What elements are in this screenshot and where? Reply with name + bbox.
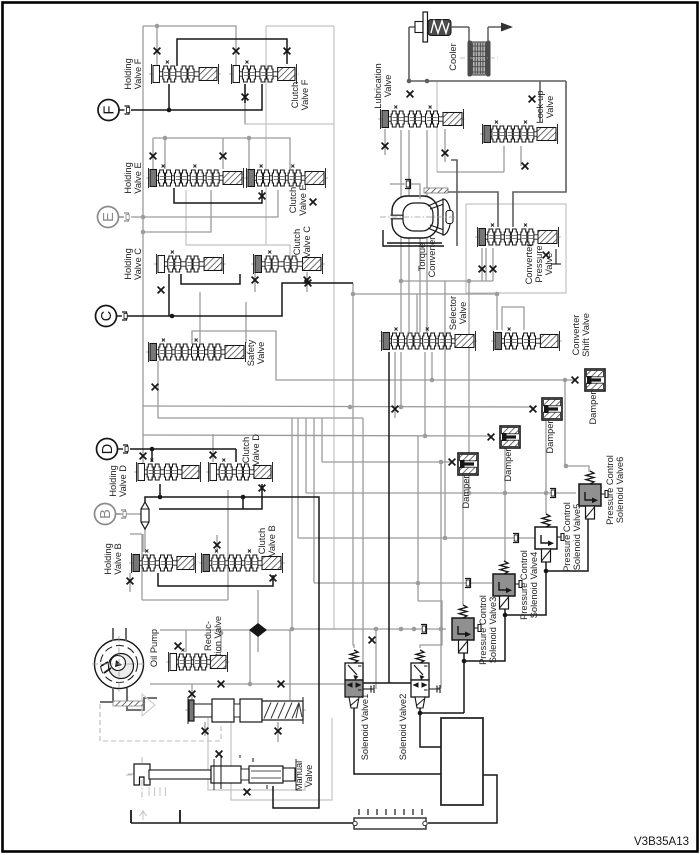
port bracket xyxy=(465,579,471,588)
wire xyxy=(419,704,421,713)
exhaust mark X xyxy=(140,453,147,460)
wire xyxy=(444,281,446,538)
exhaust mark X xyxy=(175,643,182,650)
label Lock-up Valve xyxy=(535,90,555,123)
doc number V3B35A13 xyxy=(634,836,689,848)
svg-text:Valve C: Valve C xyxy=(133,248,143,280)
exhaust mark X xyxy=(127,578,134,585)
wire xyxy=(245,84,334,124)
svg-text:B: B xyxy=(98,509,114,519)
junction xyxy=(544,491,549,496)
damper 2 xyxy=(542,398,562,420)
exhaust mark X xyxy=(522,163,529,170)
wire xyxy=(145,497,319,808)
exhaust mark X xyxy=(392,406,399,413)
exhaust mark X xyxy=(530,406,537,413)
wire xyxy=(502,307,524,330)
wire xyxy=(141,534,143,600)
wire xyxy=(546,516,588,571)
svg-text:Valve C: Valve C xyxy=(302,226,312,258)
wire xyxy=(504,448,506,561)
wire xyxy=(463,661,465,713)
svg-text:Cooler: Cooler xyxy=(448,43,458,70)
exhaust mark X xyxy=(189,691,196,698)
label Pressure Control Solenoid Valve6 xyxy=(605,455,625,525)
orifice diamond xyxy=(249,623,267,637)
torque converter xyxy=(380,188,458,246)
valve: Manual Valve xyxy=(128,755,299,790)
label Reduction Valve xyxy=(203,616,223,656)
wire xyxy=(130,810,132,823)
valve: Lock-up Valve xyxy=(480,121,560,145)
wire xyxy=(181,274,240,284)
suction arrow xyxy=(142,694,155,716)
label Pressure Control Solenoid Valve5 xyxy=(562,502,582,572)
label Pressure Control Solenoid Valve4 xyxy=(519,550,539,620)
exhaust mark X xyxy=(304,277,311,284)
wire xyxy=(440,462,442,629)
exhaust mark X xyxy=(158,287,165,294)
wire xyxy=(265,26,267,245)
svg-text:Clutch: Clutch xyxy=(288,187,298,213)
wire xyxy=(428,775,497,823)
wire xyxy=(468,281,470,493)
wire xyxy=(417,436,419,601)
junction xyxy=(150,447,155,452)
exhaust mark X xyxy=(210,452,217,459)
svg-text:Valve E: Valve E xyxy=(298,184,308,215)
label Lubrication Valve xyxy=(373,63,393,108)
exhaust mark X xyxy=(407,91,414,98)
exhaust mark X xyxy=(284,48,291,55)
wire xyxy=(168,274,170,316)
exhaust mark X xyxy=(244,789,251,796)
wire xyxy=(244,84,246,103)
wire xyxy=(212,434,214,462)
label Damper 2 xyxy=(545,420,555,453)
junction xyxy=(439,460,444,465)
valve: Converter Pressure Valve xyxy=(475,224,561,248)
junction xyxy=(399,405,404,410)
wire xyxy=(185,630,187,652)
svg-text:Oil Pump: Oil Pump xyxy=(149,629,159,667)
valve: Clutch Valve D xyxy=(206,459,275,483)
wire xyxy=(408,27,410,81)
svg-text:Valve E: Valve E xyxy=(133,162,143,193)
exhaust mark X xyxy=(543,252,550,259)
wire xyxy=(131,84,262,110)
wire xyxy=(164,138,166,169)
wire xyxy=(464,608,505,661)
label Clutch Valve E xyxy=(288,184,308,215)
label Damper 3 xyxy=(503,448,513,481)
svg-text:Damper: Damper xyxy=(503,448,513,481)
wire xyxy=(444,129,446,162)
wire xyxy=(424,352,426,436)
wire xyxy=(143,190,211,232)
svg-text:Solenoid Valve6: Solenoid Valve6 xyxy=(615,457,625,524)
exhaust mark X xyxy=(242,94,249,101)
junction xyxy=(351,292,356,297)
valve: Clutch Valve C xyxy=(251,251,325,275)
wire xyxy=(152,138,154,169)
svg-text:Lubrication: Lubrication xyxy=(373,63,383,108)
svg-text:Converter: Converter xyxy=(524,244,534,285)
svg-text:Solenoid Valve3: Solenoid Valve3 xyxy=(488,597,498,664)
wire xyxy=(129,573,131,592)
wire xyxy=(144,526,146,552)
wire xyxy=(322,461,452,463)
svg-text:Holding: Holding xyxy=(123,248,133,280)
junction xyxy=(348,405,353,410)
wire xyxy=(565,380,589,472)
wire xyxy=(292,418,446,629)
label Solenoid Valve1 xyxy=(360,694,370,761)
svg-text:D: D xyxy=(100,444,116,454)
exhaust mark X xyxy=(218,681,225,688)
label Clutch Valve F xyxy=(290,79,310,110)
wire xyxy=(513,81,566,227)
junction xyxy=(155,24,160,29)
svg-text:Manual: Manual xyxy=(294,761,304,792)
wire xyxy=(437,171,504,173)
svg-text:Holding: Holding xyxy=(108,465,118,497)
wire xyxy=(400,352,402,407)
label Converter Shift Valve xyxy=(571,313,591,357)
wire xyxy=(445,192,498,227)
wire xyxy=(227,490,229,600)
exhaust mark X xyxy=(275,728,282,735)
exhaust mark X xyxy=(259,193,266,200)
svg-text:Clutch: Clutch xyxy=(241,437,251,463)
wire xyxy=(208,718,305,790)
exhaust mark X xyxy=(233,48,240,55)
label Selector Valve xyxy=(448,296,468,330)
wire xyxy=(174,188,262,203)
exhaust mark X xyxy=(216,751,223,758)
wire xyxy=(313,418,315,583)
label Holding Valve B xyxy=(103,543,123,575)
exhaust mark X xyxy=(529,96,536,103)
wire xyxy=(333,26,335,629)
wire xyxy=(409,80,566,82)
wire xyxy=(394,352,396,418)
svg-text:Pressure: Pressure xyxy=(534,245,544,282)
junction xyxy=(467,279,472,284)
wire xyxy=(142,599,228,601)
svg-text:E: E xyxy=(101,212,117,222)
svg-text:Reduc-: Reduc- xyxy=(203,621,213,651)
wire xyxy=(127,283,353,316)
exhaust mark X xyxy=(449,459,456,466)
junction xyxy=(219,631,224,636)
wire xyxy=(191,684,193,700)
junction xyxy=(503,491,508,496)
pressure control solenoid valve 4 xyxy=(493,561,522,609)
label Cooler xyxy=(448,43,458,70)
wire xyxy=(235,449,237,462)
damper 4 xyxy=(458,453,478,475)
clevis centerlines xyxy=(126,757,162,800)
wire xyxy=(384,129,386,155)
junction xyxy=(439,627,444,632)
svg-text:Solenoid Valve5: Solenoid Valve5 xyxy=(572,504,582,571)
svg-text:V3B35A13: V3B35A13 xyxy=(634,836,689,848)
exhaust mark X xyxy=(152,384,159,391)
wire xyxy=(143,406,533,407)
junction xyxy=(430,378,435,383)
junction xyxy=(290,627,295,632)
wire xyxy=(199,292,201,343)
valve: Safety Valve xyxy=(146,339,248,363)
wire xyxy=(156,26,158,66)
wire xyxy=(249,630,251,684)
svg-text:Valve F: Valve F xyxy=(300,79,310,110)
wire xyxy=(353,294,497,330)
wire xyxy=(266,25,334,27)
svg-text:Holding: Holding xyxy=(123,162,133,194)
wire xyxy=(503,146,505,172)
junction xyxy=(563,378,568,383)
exhaust mark X xyxy=(252,277,259,284)
exhaust mark X xyxy=(220,153,227,160)
wire xyxy=(363,418,372,689)
label Converter Pressure Valve xyxy=(524,244,554,285)
junction xyxy=(467,491,472,496)
svg-text:Damper: Damper xyxy=(545,420,555,453)
valve: Lubrication Valve xyxy=(378,106,466,130)
wire xyxy=(142,26,144,464)
wire xyxy=(418,601,442,648)
node D xyxy=(97,439,129,460)
wire xyxy=(321,418,323,462)
exhaust mark X xyxy=(369,637,376,644)
label Holding Valve E xyxy=(123,162,143,194)
svg-text:Safety: Safety xyxy=(246,339,256,366)
exhaust mark X xyxy=(154,48,161,55)
valve: Holding Valve B xyxy=(129,550,198,574)
svg-text:Valve: Valve xyxy=(545,96,555,119)
exhaust mark X xyxy=(488,434,495,441)
wire xyxy=(116,513,141,515)
valve: Holding Valve D xyxy=(134,459,203,483)
svg-text:F: F xyxy=(102,105,118,114)
port bracket xyxy=(513,534,519,543)
wire xyxy=(159,484,161,497)
solenoid valve 2 xyxy=(411,650,440,708)
wire xyxy=(411,184,420,199)
junction xyxy=(163,136,168,141)
junction xyxy=(241,495,246,500)
port bracket xyxy=(421,625,427,634)
wire xyxy=(431,352,433,380)
svg-text:Clutch: Clutch xyxy=(290,82,300,108)
wire xyxy=(505,562,546,615)
svg-text:Lock-up: Lock-up xyxy=(535,90,545,123)
svg-text:Valve F: Valve F xyxy=(133,58,143,89)
wire xyxy=(177,39,287,66)
junction xyxy=(374,627,379,632)
svg-text:Clutch: Clutch xyxy=(292,229,302,255)
svg-text:Torque: Torque xyxy=(417,243,427,271)
wire xyxy=(143,435,491,436)
wire xyxy=(142,534,144,552)
wire xyxy=(363,682,412,684)
exhaust mark X xyxy=(278,681,285,688)
wire xyxy=(306,492,576,494)
port bracket xyxy=(550,489,556,498)
wire xyxy=(245,302,247,343)
wire xyxy=(438,629,441,688)
svg-text:Solenoid Valve2: Solenoid Valve2 xyxy=(398,694,408,761)
junction xyxy=(167,108,172,113)
wire xyxy=(375,629,377,689)
damper 3 xyxy=(500,426,520,448)
wire xyxy=(539,81,541,122)
exhaust mark X xyxy=(214,542,221,549)
wire xyxy=(354,708,441,774)
control unit box xyxy=(441,718,483,805)
port bracket xyxy=(405,180,411,189)
svg-text:Holding: Holding xyxy=(103,543,113,575)
wire xyxy=(151,449,153,462)
wire xyxy=(153,138,290,169)
cp valve spring ext xyxy=(551,249,561,264)
wire xyxy=(462,475,464,605)
junction xyxy=(399,279,404,284)
label Pressure Control Solenoid Valve3 xyxy=(478,595,498,665)
valve: Main Regulator Valve xyxy=(185,697,307,724)
svg-text:Pressure Control: Pressure Control xyxy=(605,455,615,525)
junction xyxy=(443,536,448,541)
wire xyxy=(192,331,575,380)
wire xyxy=(463,653,465,661)
junction xyxy=(247,136,252,141)
valve: Clutch Valve E xyxy=(244,165,328,189)
wire xyxy=(420,712,464,714)
label Holding Valve C xyxy=(123,248,143,280)
svg-text:Solenoid Valve1: Solenoid Valve1 xyxy=(360,694,370,761)
wire xyxy=(401,280,493,282)
exhaust mark X xyxy=(259,485,266,492)
wire xyxy=(231,718,332,800)
wire xyxy=(216,535,218,552)
svg-text:Damper: Damper xyxy=(588,391,598,424)
wire xyxy=(222,138,224,169)
wire xyxy=(244,84,246,124)
wire xyxy=(242,497,244,509)
wire xyxy=(254,272,256,292)
oil pump xyxy=(92,628,157,710)
check valve xyxy=(141,502,149,529)
label Clutch Valve D xyxy=(241,434,261,466)
wire xyxy=(204,722,206,736)
label Clutch Valve B xyxy=(257,525,277,556)
exhaust mark X xyxy=(382,143,389,150)
exhaust mark X xyxy=(490,266,497,273)
pressure control solenoid valve 6 xyxy=(579,471,608,519)
label Clutch Valve C xyxy=(292,226,312,258)
suction dashed line xyxy=(100,704,221,741)
exhaust mark X xyxy=(270,575,277,582)
label Manual Valve xyxy=(294,761,314,792)
valve: Reduction Valve xyxy=(166,649,230,673)
exhaust mark X xyxy=(572,377,579,384)
wire xyxy=(451,160,457,246)
junction xyxy=(564,464,569,469)
wire xyxy=(160,629,292,631)
junction xyxy=(503,613,508,618)
wire xyxy=(158,573,273,586)
svg-text:Valve: Valve xyxy=(458,302,468,325)
junction xyxy=(416,581,421,586)
exhaust mark X xyxy=(310,199,317,206)
wire xyxy=(485,248,487,281)
wire xyxy=(390,183,405,185)
node F xyxy=(98,100,130,121)
flow arrow xyxy=(488,23,513,32)
wire xyxy=(130,533,142,535)
wire xyxy=(257,590,259,624)
svg-text:Converter: Converter xyxy=(571,315,581,356)
cooler bypass relief valve xyxy=(409,12,469,42)
wire xyxy=(131,822,353,824)
label Oil Pump xyxy=(149,629,159,667)
svg-text:Damper: Damper xyxy=(461,475,471,508)
wire xyxy=(305,418,307,493)
label Holding Valve D xyxy=(108,465,128,497)
wire xyxy=(248,138,250,169)
svg-text:Valve B: Valve B xyxy=(113,543,123,574)
node E xyxy=(98,207,130,228)
wire xyxy=(130,448,236,450)
node B xyxy=(95,504,127,525)
junction xyxy=(495,292,500,297)
wire xyxy=(416,294,418,332)
junction xyxy=(141,230,146,235)
junction xyxy=(462,659,467,664)
label Safety Valve xyxy=(246,339,266,366)
svg-text:tion Valve: tion Valve xyxy=(213,616,223,656)
wire xyxy=(150,683,345,685)
valve: Holding Valve E xyxy=(146,165,246,189)
junction xyxy=(418,711,423,716)
svg-text:Selector: Selector xyxy=(448,296,458,330)
svg-text:Valve: Valve xyxy=(256,342,266,365)
svg-text:C: C xyxy=(99,311,115,321)
wire xyxy=(289,630,291,700)
wire xyxy=(420,713,441,747)
node C xyxy=(96,306,128,327)
junction xyxy=(544,569,549,574)
wire xyxy=(400,130,402,332)
svg-text:Valve: Valve xyxy=(304,765,314,788)
wire xyxy=(186,190,290,258)
wire xyxy=(158,361,363,418)
svg-text:Pressure Control: Pressure Control xyxy=(519,550,529,620)
wire xyxy=(220,630,222,652)
wire xyxy=(131,190,278,217)
valve: Clutch Valve F xyxy=(229,61,299,85)
svg-text:Valve B: Valve B xyxy=(267,525,277,556)
exhaust mark X xyxy=(442,150,449,157)
label Damper 4 xyxy=(461,475,471,508)
label Torque Converter xyxy=(417,237,437,278)
valve: Converter Shift Valve xyxy=(491,328,562,352)
wire xyxy=(159,484,262,509)
wire xyxy=(408,130,410,332)
wire xyxy=(419,199,421,332)
